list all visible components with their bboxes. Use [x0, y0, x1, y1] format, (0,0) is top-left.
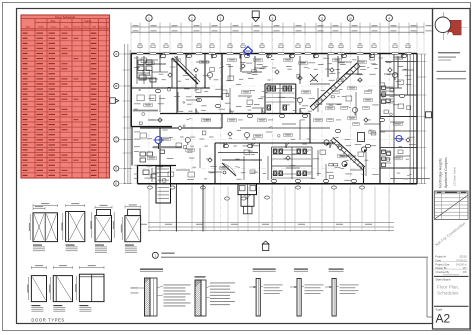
door schedule header group row	[35, 22, 110, 24]
interior wall v9	[259, 143, 261, 184]
interior wall v5	[264, 84, 266, 114]
svg-text:Width: Width	[38, 25, 44, 28]
dark extension line below building	[176, 184, 178, 232]
wall type 1 notes	[164, 284, 191, 287]
svg-text:A: A	[115, 52, 117, 56]
title block border	[433, 9, 471, 330]
top band partition walls	[136, 56, 138, 78]
svg-text:07/30/10: 07/30/10	[456, 258, 467, 262]
spot elevation circles	[324, 140, 329, 145]
interior wall v2	[204, 54, 206, 89]
toilet fixtures cluster A	[267, 86, 271, 91]
interior wall v4	[240, 54, 242, 73]
wall type 1 heading	[140, 269, 163, 270]
svg-text:B: B	[115, 84, 117, 88]
plan annotation smudges	[134, 57, 139, 60]
svg-text:Comments: Comments	[97, 25, 107, 28]
sheet name separator	[434, 275, 469, 277]
left grid bubbles	[114, 51, 119, 56]
wall type 2 heading	[195, 276, 206, 277]
window marks on top wall	[137, 53, 143, 55]
stair top cross	[310, 74, 318, 82]
door type 3 elevation	[95, 206, 112, 208]
svg-text:Sheet Name: Sheet Name	[436, 278, 451, 282]
svg-text:123 Main Street: 123 Main Street	[453, 167, 457, 186]
blue section circle left	[155, 137, 162, 144]
grid bubble 10	[347, 15, 353, 21]
bath block 2 walls	[272, 146, 312, 148]
interior wall corridor bottom	[140, 127, 222, 129]
grid bubble 3	[217, 15, 223, 21]
title block logo	[443, 12, 445, 40]
grid bubble 1	[146, 15, 152, 21]
right small box	[426, 258, 428, 317]
wall type 2 notes	[210, 282, 235, 285]
inner room wall	[218, 152, 258, 154]
svg-text:Frame: Frame	[85, 20, 93, 23]
svg-text:Date: Date	[436, 258, 442, 262]
wall type 1 section	[145, 278, 151, 316]
small circle symbols	[185, 137, 190, 142]
door tag ellipses	[160, 54, 165, 57]
svg-text:A2: A2	[436, 312, 451, 326]
bath block interior lines	[266, 88, 295, 90]
door type 2 elevation	[66, 205, 85, 207]
bottom dimension lines	[148, 222, 394, 224]
top-left room furniture	[138, 60, 144, 65]
door type 1 double door elevation	[33, 205, 58, 207]
svg-text:Height: Height	[50, 25, 56, 28]
svg-text:MT: MT	[463, 266, 467, 270]
blue diamond tag	[244, 47, 253, 56]
scale separator	[434, 305, 469, 307]
right rooms walls	[406, 54, 408, 96]
svg-text:E: E	[115, 182, 117, 186]
door type 6 elevation	[53, 267, 72, 269]
door type 5 elevation	[31, 267, 46, 269]
grid bubble 9	[319, 15, 325, 21]
revision table diagonal	[435, 195, 468, 219]
top dimension line 1	[131, 26, 424, 28]
left dimension lines	[124, 44, 126, 184]
interior wall h5	[215, 142, 335, 144]
stair diagonal upper run	[310, 63, 357, 107]
wall below stair end	[363, 167, 365, 184]
svg-text:Project Size: Project Size	[436, 262, 450, 266]
right wall tag	[425, 112, 431, 118]
svg-text:DOOR TYPES: DOOR TYPES	[31, 318, 64, 323]
room tag pills	[146, 61, 155, 65]
top dimension line 2	[131, 31, 424, 33]
stair elbow landing	[358, 133, 365, 142]
svg-text:Fire Rat: Fire Rat	[73, 25, 81, 28]
wall left step	[132, 126, 172, 128]
interior wall h2	[195, 96, 222, 98]
toilet fixtures cluster D	[382, 150, 386, 153]
toilet fixtures cluster B	[274, 149, 277, 154]
wall type 2 section	[195, 280, 201, 316]
diagonal wall top-left	[172, 58, 198, 84]
svg-text:Checked By: Checked By	[436, 270, 451, 274]
door schedule title row	[21, 18, 110, 20]
interior wall v6	[295, 84, 297, 114]
svg-text:DB: DB	[463, 270, 467, 274]
blue section circle right	[396, 136, 402, 142]
building top wall	[131, 53, 417, 55]
right dimension lines	[421, 54, 423, 184]
svg-text:Apartment Complex: Apartment Complex	[444, 157, 448, 188]
svg-text:Schedules: Schedules	[437, 291, 459, 296]
wall type 3 detail	[253, 269, 276, 270]
svg-text:Northridge Heights: Northridge Heights	[439, 158, 443, 188]
door schedule column lines	[34, 19, 36, 178]
svg-text:C: C	[115, 138, 117, 142]
bath block top walls	[265, 83, 296, 85]
wall type 4 detail	[294, 269, 308, 270]
entry diagonal door leaf	[222, 163, 236, 176]
stair diagonal lower run	[333, 138, 365, 168]
svg-text:20218: 20218	[459, 255, 467, 259]
building lower-left wall	[137, 166, 139, 184]
door type 7 sliding elevation	[79, 267, 104, 269]
section tag top	[252, 11, 259, 18]
door schedule table background	[21, 15, 110, 178]
interior wall corridor top	[160, 113, 310, 115]
grid bubble 5	[269, 15, 275, 21]
right-center extra tags	[333, 90, 340, 93]
door swing arcs	[160, 54, 165, 59]
tags below bottom wall	[148, 186, 153, 189]
interior wall h1	[131, 87, 210, 89]
plan fixture marks	[390, 113, 393, 116]
misc interior clutter	[141, 58, 147, 62]
lower-left room furniture	[140, 152, 146, 156]
svg-text:Matl: Matl	[92, 25, 96, 28]
top dimension extension lines	[130, 23, 132, 35]
kitchen counter gray band	[153, 146, 182, 148]
title block divider lines	[437, 70, 467, 72]
extra center annotations	[240, 61, 246, 64]
wall type 5 detail	[329, 269, 344, 270]
interior wall h6	[222, 159, 262, 161]
svg-text:Floor Plan,: Floor Plan,	[437, 284, 459, 289]
wall type 1 leaders left	[131, 287, 139, 290]
left stair block	[156, 166, 171, 203]
interior wall v3	[221, 54, 223, 101]
diamond tags	[168, 73, 172, 77]
svg-text:Drawn By: Drawn By	[436, 266, 448, 270]
wall near stair top	[327, 54, 329, 78]
title block firm name	[438, 52, 460, 53]
stair block below building	[238, 184, 257, 195]
svg-text:Door Schedule: Door Schedule	[55, 15, 75, 19]
svg-text:D: D	[115, 167, 117, 171]
view title bar	[152, 252, 158, 258]
grid bubble 11	[386, 15, 392, 21]
interior wall v8	[214, 143, 216, 184]
interior wall v7	[309, 114, 311, 144]
building bottom wall	[138, 183, 418, 185]
revision table	[435, 191, 469, 220]
section house tag bottom	[262, 244, 268, 251]
interior wall v1	[171, 58, 173, 88]
building left wall	[130, 54, 132, 128]
window extension lines to top wall	[130, 35, 132, 53]
door type 4 elevation	[125, 206, 141, 208]
stair room furniture	[329, 164, 333, 166]
door schedule data rows	[21, 30, 110, 32]
plan partition segments	[136, 60, 138, 84]
grid bubble 2	[189, 15, 195, 21]
bottom dimension extension lines	[148, 187, 150, 232]
svg-text:Size: Size	[51, 20, 56, 23]
left grid tag	[110, 98, 116, 104]
building right wall	[416, 54, 418, 184]
svg-text:24,000 sf: 24,000 sf	[456, 262, 467, 266]
svg-text:Frame: Frame	[83, 25, 90, 28]
toilet fixtures cluster C	[382, 86, 386, 89]
window tags above top wall	[138, 45, 142, 48]
plan column grid lines vertical	[148, 22, 150, 233]
svg-text:Project #: Project #	[436, 255, 447, 259]
